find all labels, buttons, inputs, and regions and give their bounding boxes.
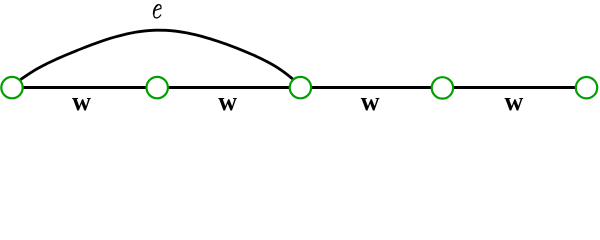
curved edge e (node 1 to node 3)	[16, 30, 296, 83]
svg-text:w: w	[72, 87, 91, 116]
wire: straight edge chain nodes 1-5	[12, 86, 587, 89]
node 5	[576, 77, 597, 98]
node 4	[432, 77, 453, 98]
node 1	[1, 77, 22, 98]
svg-text:w: w	[361, 87, 380, 116]
node 3	[290, 77, 311, 98]
svg-text:w: w	[218, 87, 237, 116]
label e curved edge	[153, 5, 162, 18]
node 2	[147, 77, 168, 98]
svg-text:w: w	[505, 87, 524, 116]
